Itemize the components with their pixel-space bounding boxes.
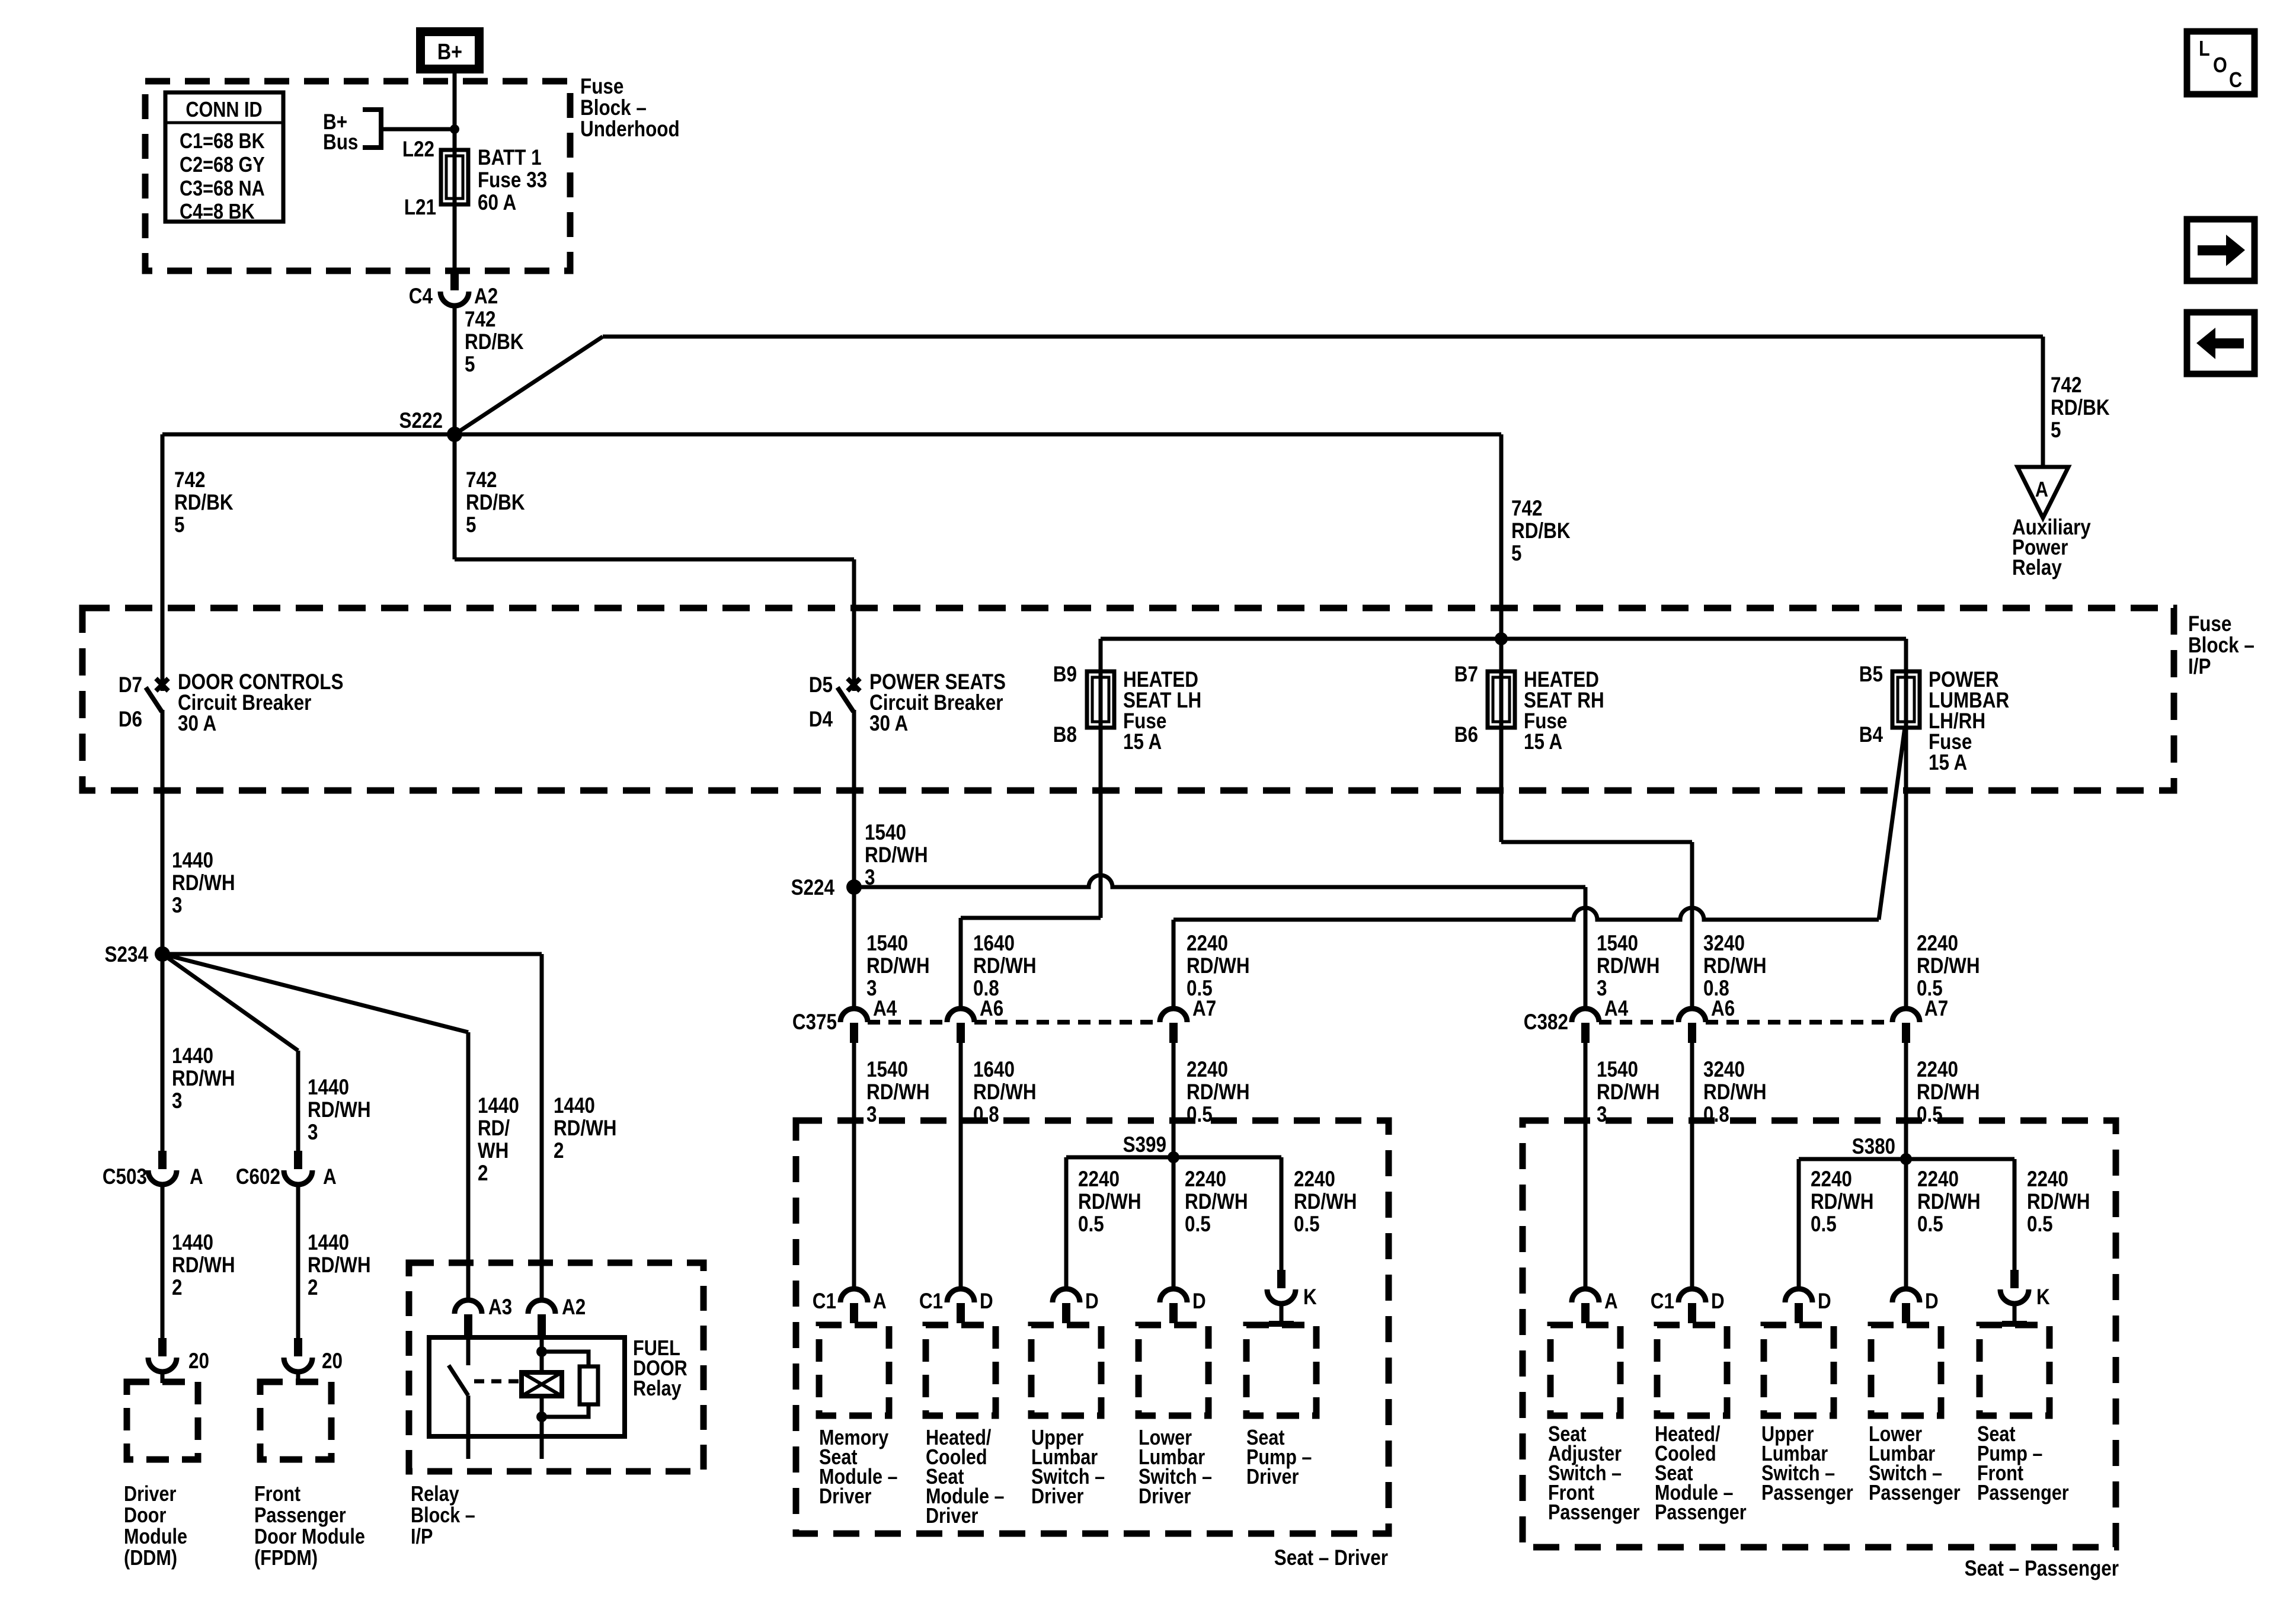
- svg-text:3240: 3240: [1703, 932, 1745, 956]
- svg-text:1540: 1540: [866, 932, 908, 956]
- wire feed down to fuse bus: [1499, 434, 1504, 639]
- svg-text:742: 742: [2051, 373, 2081, 398]
- Lower Lumbar Switch - Passenger dashed box: [1871, 1325, 1941, 1416]
- svg-text:1540: 1540: [866, 1058, 908, 1082]
- connector A3 relay: [455, 1300, 482, 1314]
- svg-text:Driver: Driver: [926, 1505, 978, 1528]
- svg-text:C3=68 NA: C3=68 NA: [180, 177, 265, 201]
- svg-text:RD/BK: RD/BK: [2051, 396, 2110, 420]
- svg-text:20: 20: [188, 1349, 209, 1374]
- svg-text:K: K: [2036, 1285, 2050, 1310]
- svg-text:Block –: Block –: [411, 1504, 475, 1528]
- connector D upper lumbar switch passenger: [1785, 1289, 1812, 1302]
- svg-text:1440: 1440: [308, 1231, 349, 1255]
- svg-text:742: 742: [174, 468, 205, 492]
- svg-text:3: 3: [866, 1103, 877, 1127]
- svg-text:2240: 2240: [1917, 932, 1958, 956]
- svg-text:2240: 2240: [1187, 1058, 1228, 1082]
- CONN ID table: [165, 92, 283, 222]
- connector row C375 dashed line: [868, 1020, 1160, 1025]
- svg-text:2240: 2240: [1917, 1058, 1958, 1082]
- svg-text:B8: B8: [1053, 723, 1077, 747]
- connector C375 A7: [1160, 1009, 1187, 1022]
- connector C1 D heated cooled seat module passenger: [1678, 1289, 1706, 1302]
- svg-text:Underhood: Underhood: [580, 117, 680, 142]
- relay control dashed link: [474, 1379, 519, 1384]
- splice S399 dot: [1168, 1151, 1179, 1163]
- svg-text:Door: Door: [124, 1504, 166, 1528]
- svg-text:S224: S224: [791, 876, 834, 900]
- wire S399 to seat pump driver: [1280, 1157, 1284, 1271]
- B+ Bus bracket symbol: [363, 110, 381, 148]
- wire S224 horizontal to passenger A4 with hop: [854, 875, 1585, 887]
- svg-text:D4: D4: [809, 708, 833, 732]
- svg-text:1440: 1440: [554, 1094, 595, 1118]
- svg-text:30 A: 30 A: [178, 712, 216, 736]
- svg-text:15 A: 15 A: [1929, 751, 1967, 775]
- svg-text:D: D: [1192, 1289, 1206, 1314]
- svg-text:1440: 1440: [172, 1044, 213, 1068]
- svg-text:CONN ID: CONN ID: [186, 98, 262, 122]
- Fuse Block - I/P dashed box: [82, 608, 2174, 790]
- wire down to auxiliary power relay: [2041, 337, 2045, 467]
- svg-text:Fuse: Fuse: [2188, 612, 2231, 636]
- svg-text:1540: 1540: [1597, 1058, 1638, 1082]
- connector C382 A6: [1678, 1009, 1706, 1022]
- svg-text:Passenger: Passenger: [1548, 1501, 1640, 1525]
- svg-text:RD/WH: RD/WH: [1597, 954, 1660, 978]
- wire POWER LUMBAR fuse down to passenger A7: [1904, 728, 1908, 1009]
- svg-text:S399: S399: [1123, 1133, 1166, 1157]
- svg-text:Block –: Block –: [580, 96, 647, 120]
- connector C503 A: [158, 1151, 167, 1169]
- svg-text:Seat – Driver: Seat – Driver: [1274, 1546, 1388, 1570]
- svg-text:D: D: [1925, 1289, 1939, 1314]
- svg-text:B5: B5: [1859, 662, 1883, 687]
- connector row C382 dashed line: [1599, 1020, 1892, 1025]
- svg-text:K: K: [1303, 1285, 1317, 1310]
- svg-text:B7: B7: [1454, 662, 1478, 687]
- LOC reference box: [2187, 31, 2255, 94]
- svg-text:0.5: 0.5: [1917, 1212, 1943, 1237]
- svg-text:D: D: [980, 1289, 993, 1314]
- svg-text:Passenger: Passenger: [1761, 1481, 1853, 1505]
- svg-text:RD/WH: RD/WH: [172, 1253, 235, 1278]
- svg-text:5: 5: [465, 353, 475, 377]
- splice S380 horizontal: [1799, 1157, 2014, 1161]
- wire passenger A6 to heated cooled module passenger: [1690, 1043, 1694, 1289]
- fuse POWER LUMBAR LH/RH 15 A: [1904, 671, 1908, 728]
- wire 742 RD/BK 5 connector to S222: [453, 306, 457, 434]
- Heated/Cooled Seat Module - Passenger dashed box: [1657, 1325, 1727, 1416]
- svg-text:Relay: Relay: [633, 1377, 682, 1401]
- connector D lower lumbar switch passenger: [1892, 1289, 1920, 1302]
- svg-text:C1: C1: [1651, 1289, 1674, 1314]
- connector C1 D heated cooled seat module driver: [947, 1289, 974, 1302]
- svg-text:B4: B4: [1859, 723, 1883, 747]
- svg-text:I/P: I/P: [411, 1525, 433, 1549]
- svg-text:3240: 3240: [1703, 1058, 1745, 1082]
- svg-text:5: 5: [2051, 418, 2061, 443]
- svg-text:RD/WH: RD/WH: [973, 954, 1037, 978]
- wire POWER LUMBAR diagonal to driver A7 feed: [1879, 728, 1905, 920]
- svg-text:S222: S222: [399, 409, 443, 433]
- connector 20 DDM: [158, 1338, 167, 1356]
- svg-text:20: 20: [322, 1349, 343, 1374]
- wire driver A4 to memory seat module: [852, 1043, 856, 1289]
- svg-text:D6: D6: [119, 708, 142, 732]
- svg-text:(DDM): (DDM): [124, 1547, 177, 1570]
- svg-text:WH: WH: [478, 1139, 509, 1163]
- relay switch contact: [466, 1337, 471, 1365]
- relay junction dot upper: [536, 1346, 547, 1357]
- Seat - Passenger dashed box: [1523, 1121, 2116, 1547]
- connector C382 A4: [1572, 1009, 1599, 1022]
- Seat - Driver dashed box: [796, 1121, 1389, 1534]
- wire HEATED SEAT LH fuse down across S224 to driver A6: [1099, 728, 1103, 918]
- fuse BATT 1 Fuse 33 60 A: [453, 150, 457, 204]
- wire left branch down through DOOR CONTROLS breaker: [161, 434, 165, 691]
- circuit breaker contact X at D7: [156, 678, 168, 691]
- svg-text:B9: B9: [1053, 662, 1077, 687]
- svg-text:1440: 1440: [172, 849, 213, 873]
- svg-text:C4: C4: [409, 284, 433, 309]
- wire S234 down to C503: [161, 954, 165, 1152]
- svg-text:RD/WH: RD/WH: [865, 843, 928, 868]
- svg-text:A4: A4: [1604, 997, 1628, 1021]
- svg-text:RD/WH: RD/WH: [2027, 1190, 2090, 1214]
- wire horizontal to driver A7 with hops: [1173, 908, 1879, 920]
- svg-text:RD/WH: RD/WH: [1078, 1190, 1141, 1214]
- svg-text:C382: C382: [1524, 1010, 1568, 1035]
- svg-text:Driver: Driver: [1031, 1485, 1083, 1509]
- circuit breaker blade: [837, 687, 853, 712]
- connector C375 A4: [840, 1009, 868, 1022]
- svg-text:A3: A3: [488, 1295, 512, 1320]
- svg-text:1640: 1640: [973, 1058, 1015, 1082]
- svg-text:2: 2: [478, 1161, 488, 1186]
- svg-text:742: 742: [465, 308, 495, 332]
- connector K seat pump passenger: [2010, 1270, 2019, 1288]
- wire S234 diagonal to C602: [162, 954, 298, 1051]
- relay coil box with X: [522, 1372, 562, 1396]
- splice S399 horizontal: [1066, 1156, 1281, 1160]
- svg-text:B6: B6: [1454, 723, 1478, 747]
- svg-text:C2=68 GY: C2=68 GY: [180, 153, 265, 177]
- svg-text:RD/WH: RD/WH: [1597, 1080, 1660, 1105]
- svg-text:1440: 1440: [172, 1231, 213, 1255]
- connector C1 A memory seat module driver: [840, 1289, 868, 1302]
- svg-text:3: 3: [1597, 1103, 1607, 1127]
- svg-text:2240: 2240: [1294, 1167, 1335, 1192]
- svg-text:Seat – Passenger: Seat – Passenger: [1965, 1557, 2119, 1581]
- circuit breaker contact X at D5: [848, 678, 860, 691]
- circuit breaker blade: [146, 687, 162, 712]
- svg-text:3: 3: [308, 1121, 318, 1145]
- svg-text:Driver: Driver: [819, 1485, 871, 1509]
- svg-text:RD/WH: RD/WH: [973, 1080, 1037, 1105]
- svg-text:15 A: 15 A: [1524, 730, 1562, 754]
- svg-text:3: 3: [172, 1089, 182, 1113]
- svg-text:0.5: 0.5: [1811, 1212, 1837, 1237]
- svg-text:RD/WH: RD/WH: [1917, 1080, 1980, 1105]
- svg-text:RD/WH: RD/WH: [1917, 954, 1980, 978]
- svg-text:RD/WH: RD/WH: [554, 1116, 617, 1141]
- wire B+ down to fuse: [453, 73, 457, 150]
- svg-text:2: 2: [308, 1276, 318, 1300]
- svg-text:C4=8 BK: C4=8 BK: [180, 200, 255, 224]
- svg-text:A4: A4: [873, 997, 897, 1021]
- svg-text:2240: 2240: [2027, 1167, 2068, 1192]
- svg-text:S234: S234: [105, 943, 148, 967]
- Heated/Cooled Seat Module - Driver dashed box: [926, 1325, 996, 1416]
- svg-text:A7: A7: [1192, 997, 1216, 1021]
- relay switch blade: [449, 1365, 468, 1395]
- wire C602 to FPDM 20 pin: [296, 1185, 300, 1339]
- Driver Door Module dashed box: [127, 1382, 198, 1459]
- svg-text:2: 2: [172, 1276, 182, 1300]
- svg-text:60 A: 60 A: [478, 191, 516, 215]
- svg-text:A: A: [873, 1289, 887, 1314]
- fuse HEATED SEAT RH 15 A: [1499, 671, 1504, 728]
- splice S234 dot: [155, 946, 170, 962]
- wire S224 down to driver A4: [852, 887, 856, 1009]
- svg-text:L21: L21: [404, 196, 436, 220]
- junction dot B+ bus: [450, 124, 459, 134]
- svg-text:0.5: 0.5: [1185, 1212, 1211, 1237]
- svg-text:3: 3: [172, 894, 182, 918]
- relay coil lower wire: [540, 1396, 544, 1459]
- svg-text:Fuse 33: Fuse 33: [478, 168, 547, 193]
- wire HEATED SEAT RH fuse down to passenger A6: [1499, 728, 1504, 842]
- relay coil wire from A2: [540, 1337, 544, 1372]
- svg-text:Door Module: Door Module: [254, 1525, 365, 1549]
- svg-text:D7: D7: [119, 673, 142, 697]
- svg-text:Relay: Relay: [411, 1483, 459, 1506]
- svg-text:0.5: 0.5: [1078, 1212, 1104, 1237]
- svg-text:5: 5: [174, 513, 184, 537]
- svg-text:RD/: RD/: [478, 1116, 510, 1141]
- svg-text:2240: 2240: [1811, 1167, 1852, 1192]
- splice S222 dot: [447, 427, 462, 442]
- svg-text:Passenger: Passenger: [1869, 1481, 1961, 1505]
- Front Passenger Door Module dashed box: [260, 1382, 331, 1459]
- junction dot at bus: [1495, 632, 1508, 645]
- wire C503 to DDM 20 pin: [161, 1185, 165, 1339]
- svg-text:Block –: Block –: [2188, 633, 2255, 658]
- svg-text:A: A: [2035, 478, 2048, 502]
- svg-text:A2: A2: [562, 1295, 586, 1320]
- wire diagonal S222 to auxiliary power relay feed: [455, 337, 603, 434]
- svg-text:RD/BK: RD/BK: [1511, 519, 1571, 543]
- svg-text:D5: D5: [809, 673, 833, 697]
- Seat Pump - Driver dashed box: [1246, 1325, 1316, 1416]
- svg-text:RD/WH: RD/WH: [1703, 954, 1767, 978]
- Relay Block - I/P dashed box: [409, 1263, 703, 1471]
- wire S222 right branch horizontal to fuse block I/P feed: [455, 433, 1501, 437]
- svg-text:D: D: [1085, 1289, 1099, 1314]
- svg-text:D: D: [1818, 1289, 1831, 1314]
- svg-text:RD/WH: RD/WH: [1185, 1190, 1248, 1214]
- svg-text:2: 2: [554, 1139, 564, 1163]
- svg-text:S380: S380: [1852, 1135, 1895, 1159]
- connector C4 / A2: [450, 272, 459, 290]
- svg-text:RD/WH: RD/WH: [1294, 1190, 1357, 1214]
- svg-text:RD/WH: RD/WH: [172, 1067, 235, 1091]
- svg-text:Passenger: Passenger: [1655, 1501, 1747, 1525]
- svg-text:A2: A2: [474, 284, 498, 309]
- relay resistor branch wires: [542, 1352, 589, 1366]
- wire S222 left branch horizontal: [162, 433, 455, 437]
- svg-text:RD/WH: RD/WH: [1703, 1080, 1767, 1105]
- svg-text:2240: 2240: [1078, 1167, 1120, 1192]
- connector D upper lumbar switch driver: [1053, 1289, 1080, 1302]
- svg-text:2240: 2240: [1187, 932, 1228, 956]
- svg-text:A: A: [323, 1165, 337, 1189]
- svg-text:1440: 1440: [478, 1094, 519, 1118]
- svg-text:A: A: [1604, 1289, 1618, 1314]
- wire S222 down jog to POWER SEATS breaker: [453, 434, 457, 559]
- connector D lower lumbar switch driver: [1160, 1289, 1187, 1302]
- svg-text:B+: B+: [437, 40, 462, 65]
- wire S234 horizontal to relay A2: [162, 952, 542, 956]
- svg-text:C503: C503: [103, 1165, 147, 1189]
- svg-text:5: 5: [466, 513, 476, 537]
- wire B+ Bus to main wire: [381, 127, 455, 132]
- svg-text:1540: 1540: [865, 821, 906, 845]
- svg-text:RD/BK: RD/BK: [174, 491, 234, 515]
- svg-text:0.5: 0.5: [1294, 1212, 1320, 1237]
- connector A seat adjuster switch passenger: [1572, 1289, 1599, 1302]
- svg-text:A7: A7: [1924, 997, 1948, 1021]
- svg-text:C1: C1: [919, 1289, 943, 1314]
- svg-text:C1=68 BK: C1=68 BK: [180, 130, 265, 153]
- svg-text:RD/WH: RD/WH: [172, 871, 235, 895]
- svg-text:A6: A6: [980, 997, 1003, 1021]
- splice S380 dot: [1900, 1153, 1912, 1165]
- svg-text:742: 742: [1511, 497, 1542, 521]
- svg-text:2240: 2240: [1917, 1167, 1959, 1192]
- Lower Lumbar Switch - Driver dashed box: [1139, 1325, 1208, 1416]
- connector C382 A7: [1892, 1009, 1920, 1022]
- svg-text:Driver: Driver: [1139, 1485, 1191, 1509]
- svg-text:Bus: Bus: [323, 130, 358, 155]
- fuse bus horizontal in I/P block: [1101, 637, 1906, 641]
- wire horizontal to auxiliary power relay: [603, 335, 2043, 339]
- svg-text:RD/WH: RD/WH: [1811, 1190, 1874, 1214]
- svg-text:RD/BK: RD/BK: [466, 491, 525, 515]
- splice S224 dot: [846, 879, 862, 895]
- Memory Seat Module - Driver dashed box: [819, 1325, 889, 1416]
- svg-text:RD/WH: RD/WH: [866, 954, 930, 978]
- relay switch to ground stub: [466, 1395, 471, 1459]
- svg-text:RD/WH: RD/WH: [866, 1080, 930, 1105]
- svg-text:5: 5: [1511, 542, 1521, 566]
- Seat Adjuster Switch - Front Passenger dashed box: [1550, 1325, 1620, 1416]
- svg-text:C602: C602: [236, 1165, 280, 1189]
- wire S399 to upper lumbar driver: [1064, 1157, 1069, 1289]
- Seat Pump - Front Passenger dashed box: [1980, 1325, 2049, 1416]
- svg-text:BATT 1: BATT 1: [478, 146, 542, 170]
- svg-text:I/P: I/P: [2188, 655, 2211, 679]
- Upper Lumbar Switch - Passenger dashed box: [1764, 1325, 1834, 1416]
- svg-text:2240: 2240: [1185, 1167, 1226, 1192]
- svg-text:Passenger: Passenger: [1977, 1481, 2069, 1505]
- svg-text:C375: C375: [792, 1010, 837, 1035]
- wire S380 to seat pump passenger: [2013, 1159, 2017, 1271]
- svg-text:15 A: 15 A: [1123, 730, 1162, 754]
- svg-text:742: 742: [466, 468, 497, 492]
- svg-text:O: O: [2213, 54, 2227, 78]
- connector A2 relay: [528, 1300, 555, 1314]
- connector C375 A6: [947, 1009, 974, 1022]
- svg-text:0.5: 0.5: [2027, 1212, 2053, 1237]
- svg-text:RD/WH: RD/WH: [308, 1253, 371, 1278]
- svg-text:C1: C1: [813, 1289, 836, 1314]
- svg-text:(FPDM): (FPDM): [254, 1547, 318, 1570]
- svg-text:Module: Module: [124, 1525, 187, 1549]
- svg-text:D: D: [1711, 1289, 1725, 1314]
- svg-text:RD/WH: RD/WH: [1917, 1190, 1981, 1214]
- svg-text:30 A: 30 A: [869, 712, 908, 736]
- svg-text:1540: 1540: [1597, 932, 1638, 956]
- wire passenger A7 down through S380: [1904, 1043, 1908, 1289]
- wire driver A6 to heated cooled module: [959, 1043, 963, 1289]
- power symbol B+ box: [416, 27, 484, 73]
- relay junction dot lower: [536, 1411, 547, 1422]
- svg-text:RD/WH: RD/WH: [1187, 1080, 1250, 1105]
- svg-text:L22: L22: [402, 137, 434, 162]
- off-page arrow right box: [2187, 219, 2255, 281]
- connector 20 FPDM: [294, 1338, 302, 1356]
- svg-text:RD/WH: RD/WH: [308, 1098, 371, 1122]
- bus drops to fuses: [1099, 639, 1103, 671]
- FUEL DOOR Relay solid box: [429, 1337, 625, 1436]
- connector C602 A: [294, 1151, 302, 1169]
- wire passenger A4 to seat adjuster switch: [1584, 1043, 1588, 1289]
- svg-text:RD/BK: RD/BK: [465, 330, 524, 354]
- svg-text:Passenger: Passenger: [254, 1504, 346, 1528]
- svg-text:1640: 1640: [973, 932, 1015, 956]
- svg-text:Driver: Driver: [1246, 1465, 1299, 1489]
- connector K seat pump driver: [1277, 1270, 1285, 1288]
- wire S234 diagonal to relay A3: [162, 954, 468, 1032]
- svg-text:Front: Front: [254, 1483, 300, 1506]
- wire driver A7 down through S399: [1172, 1043, 1176, 1289]
- off-page arrow left box: [2187, 312, 2255, 374]
- wire fuse to connector C4: [453, 204, 457, 274]
- Fuse Block - Underhood dashed box: [145, 81, 570, 271]
- svg-text:A6: A6: [1711, 997, 1735, 1021]
- svg-text:Fuse: Fuse: [580, 75, 623, 99]
- auxiliary power relay off-page triangle A: [2017, 467, 2068, 518]
- svg-text:C: C: [2229, 69, 2242, 92]
- wire S380 to upper lumbar passenger: [1797, 1159, 1801, 1289]
- svg-text:A: A: [190, 1165, 203, 1189]
- Upper Lumbar Switch - Driver dashed box: [1031, 1325, 1101, 1416]
- svg-text:Driver: Driver: [124, 1483, 176, 1506]
- svg-text:RD/WH: RD/WH: [1187, 954, 1250, 978]
- fuse HEATED SEAT LH 15 A: [1099, 671, 1103, 728]
- svg-text:1440: 1440: [308, 1076, 349, 1100]
- svg-text:Relay: Relay: [2012, 556, 2062, 580]
- relay resistor: [580, 1366, 598, 1404]
- svg-text:L: L: [2199, 37, 2210, 61]
